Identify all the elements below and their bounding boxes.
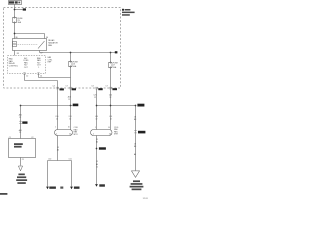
svg-text:CONTROL: CONTROL — [9, 65, 18, 67]
svg-text:12: 12 — [110, 119, 112, 121]
svg-text:C2: C2 — [31, 137, 33, 139]
svg-text:12: 12 — [69, 118, 71, 120]
svg-text:A0: A0 — [57, 148, 59, 151]
svg-text:Z1: Z1 — [22, 159, 24, 161]
svg-text:FAN: FAN — [48, 44, 52, 47]
svg-text:C2: C2 — [26, 76, 28, 78]
svg-text:L51: L51 — [69, 159, 72, 161]
svg-text:12: 12 — [19, 132, 21, 134]
svg-text:12: 12 — [95, 119, 97, 121]
svg-text:1: 1 — [56, 133, 57, 135]
svg-text:10: 10 — [109, 133, 111, 135]
svg-text:A0: A0 — [96, 140, 98, 143]
svg-text:C7: C7 — [66, 86, 68, 88]
svg-text:12: 12 — [96, 166, 98, 168]
svg-text:C4: C4 — [40, 76, 42, 78]
svg-text:L50: L50 — [48, 159, 51, 161]
svg-text:A0: A0 — [134, 153, 136, 156]
svg-text:C3: C3 — [91, 86, 93, 88]
svg-text:1: 1 — [38, 67, 39, 69]
svg-text:C1: C1 — [9, 137, 11, 139]
svg-text:12: 12 — [68, 99, 70, 101]
svg-text:A0: A0 — [96, 163, 98, 166]
svg-text:1: 1 — [95, 127, 96, 129]
svg-text:12-31: 12-31 — [143, 198, 149, 200]
svg-text:C4: C4 — [53, 86, 55, 88]
svg-text:1: 1 — [55, 127, 56, 129]
svg-text:1: 1 — [93, 133, 94, 135]
svg-text:10: 10 — [108, 127, 110, 129]
svg-text:12: 12 — [56, 118, 58, 120]
svg-text:86: 86 — [16, 37, 18, 39]
svg-text:C7: C7 — [106, 86, 108, 88]
svg-text:10: 10 — [68, 127, 70, 129]
svg-text:12: 12 — [109, 97, 111, 99]
svg-text:MTR: MTR — [114, 134, 119, 136]
svg-text:MTR: MTR — [74, 134, 79, 136]
svg-text:12: 12 — [94, 97, 96, 99]
svg-text:30: 30 — [46, 37, 48, 39]
svg-text:85: 85 — [17, 53, 19, 55]
svg-text:10: 10 — [69, 133, 71, 135]
svg-text:12: 12 — [19, 117, 21, 119]
svg-text:87: 87 — [40, 53, 42, 55]
